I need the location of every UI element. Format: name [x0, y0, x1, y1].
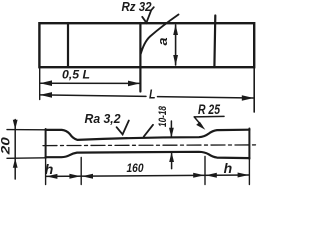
h right arrowhead pointing right	[238, 173, 249, 178]
extension line bottom: specimen left end	[45, 158, 47, 185]
arrowhead pointing left at x=81.8	[82, 174, 93, 179]
L right arrowhead	[242, 95, 254, 101]
R 25 leader diagonal with arrow to fillet	[194, 117, 201, 126]
svg-text:0,5 L: 0,5 L	[62, 70, 90, 82]
R 25 leader underline	[194, 115, 224, 118]
dimension 20: upper arrowhead pointing down	[13, 120, 18, 130]
specimen side view: bottom profile	[46, 152, 250, 158]
slash tick on gauge top line	[144, 125, 153, 137]
dimension 10-18: upper arrowhead pointing down	[169, 128, 174, 138]
curved diagonal line in top view	[140, 15, 178, 56]
roughness check mark top (Rz 32)	[142, 7, 154, 23]
extension line left of rect (for 0,5L and L)	[39, 67, 41, 100]
dimension a: vertical line	[175, 25, 177, 65]
dimension a: bottom arrowhead	[173, 55, 178, 66]
specimen side view: left end	[45, 129, 47, 158]
specimen side view: right end	[248, 129, 250, 159]
specimen axis centerline	[43, 144, 258, 147]
dimension 20: vertical line	[14, 120, 16, 180]
svg-text:10-18: 10-18	[157, 105, 169, 127]
arrowhead pointing right at x=204.4	[193, 173, 204, 178]
extension line right of rect (for L)	[253, 67, 255, 112]
dimension 10-18: lower arrowhead pointing up	[169, 152, 174, 162]
extension line bottom: specimen right end	[248, 160, 250, 185]
extension line bottom: gauge right (160 end)	[204, 157, 206, 185]
top view division line left	[67, 23, 69, 67]
0,5L left arrowhead	[40, 80, 52, 86]
specimen side view: top profile	[46, 130, 250, 140]
bottom dimension line h / 160 / h	[46, 175, 249, 176]
top view division line right (overshoots above)	[213, 16, 216, 68]
svg-text:160: 160	[127, 161, 144, 175]
h left arrowhead pointing left	[46, 174, 57, 179]
head top extension to the left (for 20)	[7, 129, 46, 131]
head bottom extension to the left (for 20)	[7, 157, 46, 160]
0,5L right arrowhead	[128, 81, 140, 87]
svg-text:R 25: R 25	[198, 102, 220, 117]
dimension 10-18: lower shaft	[171, 153, 173, 169]
roughness check mark bottom (Ra 3,2)	[117, 121, 129, 135]
arrowhead pointing left at x=205.6	[206, 173, 217, 178]
dimension line L (two segments with gap for label)	[41, 95, 147, 97]
dimension 20: lower arrowhead pointing up	[13, 158, 18, 168]
extension line bottom: gauge left (160 start)	[80, 158, 82, 185]
dimension a: top arrowhead	[173, 24, 178, 35]
svg-text:a: a	[155, 38, 170, 46]
arrowhead pointing right at x=81	[69, 174, 80, 179]
svg-text:h: h	[224, 160, 233, 176]
dimension line 0,5L	[41, 82, 140, 84]
svg-text:L: L	[149, 87, 156, 102]
dimension 10-18: upper shaft	[170, 121, 172, 137]
top view outline rectangle	[39, 23, 254, 67]
top view division line middle (with extension down for 0,5L)	[139, 23, 141, 92]
L left arrowhead	[40, 92, 52, 98]
R 25 leader arrowhead	[196, 122, 205, 130]
svg-text:h: h	[45, 161, 54, 177]
svg-text:Ra 3,2: Ra 3,2	[85, 111, 122, 126]
svg-text:20: 20	[0, 137, 12, 156]
svg-text:Rz 32: Rz 32	[122, 0, 152, 14]
